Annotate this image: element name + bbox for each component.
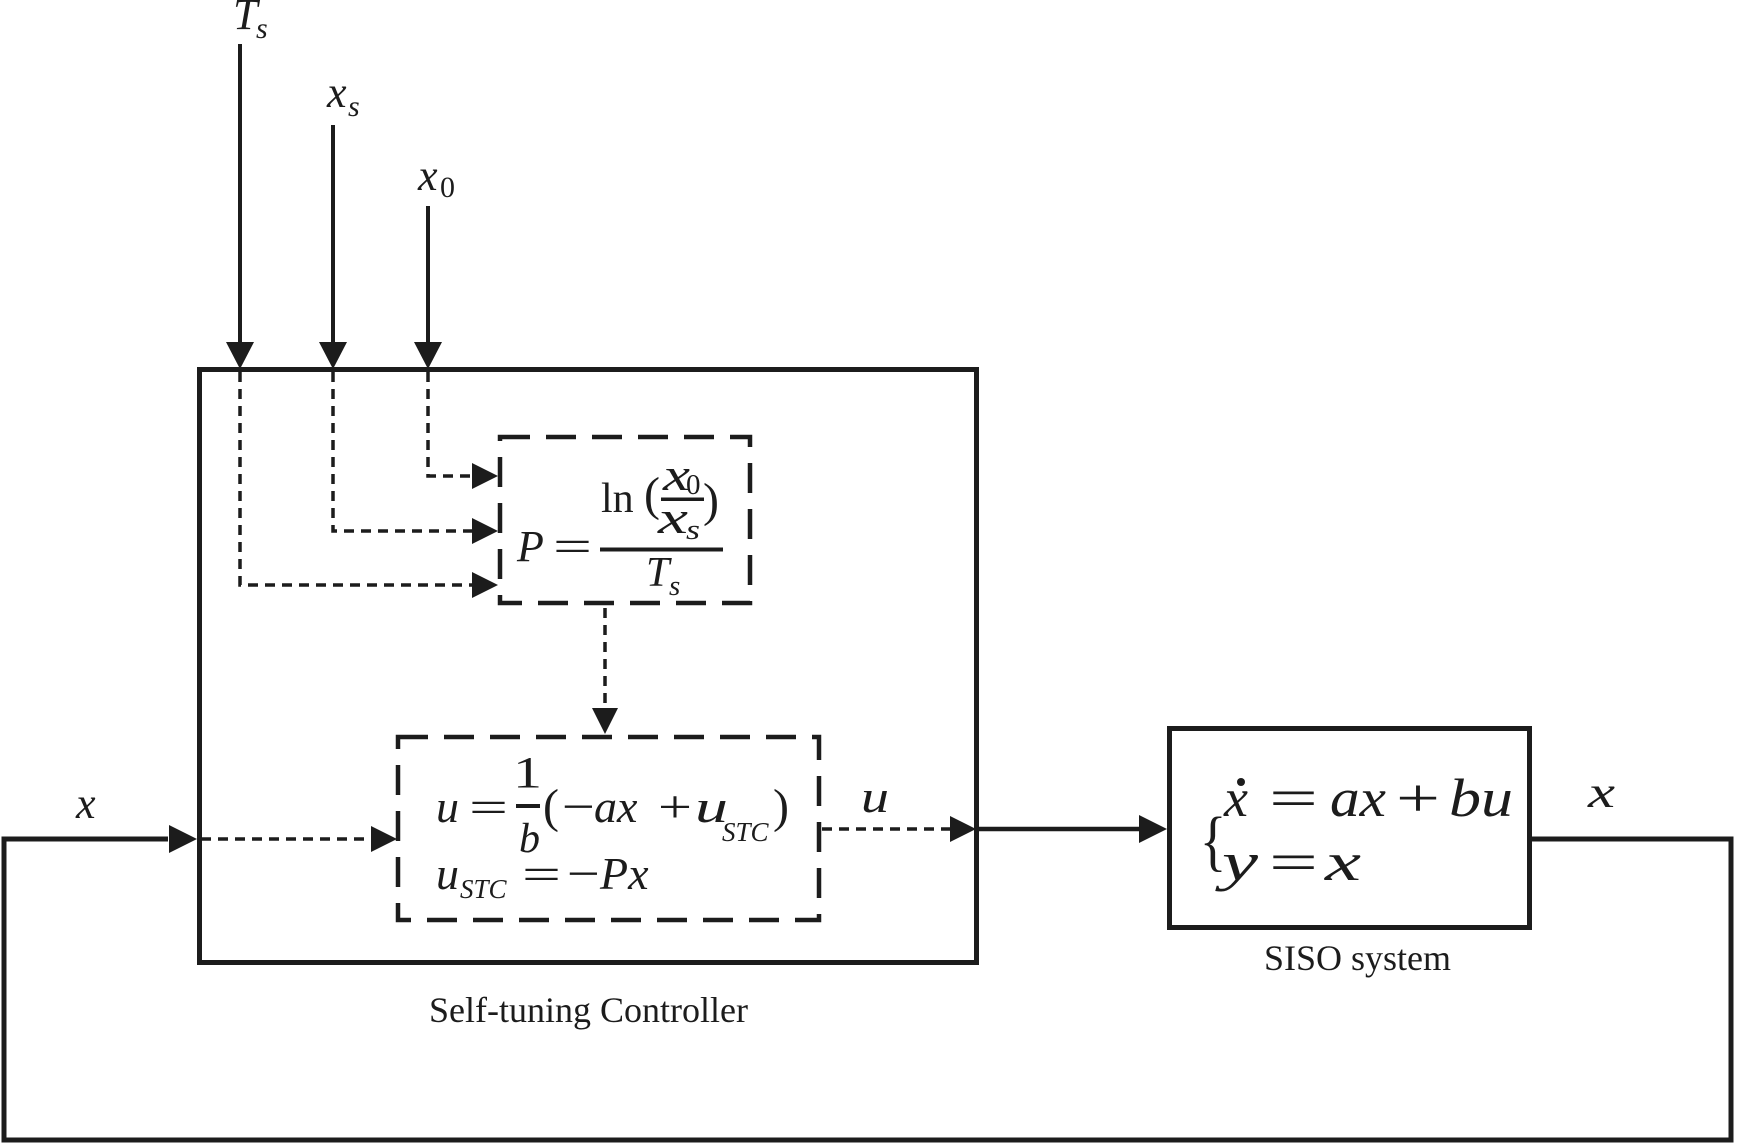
svg-text:u: u xyxy=(861,771,889,822)
svg-text:0: 0 xyxy=(686,469,701,501)
self-tuning controller box xyxy=(200,370,977,963)
input Ts arrowhead xyxy=(226,342,254,369)
input Ts wire xyxy=(238,44,242,344)
svg-text:=: = xyxy=(522,850,561,899)
svg-text:STC: STC xyxy=(722,817,770,847)
svg-text:=: = xyxy=(553,522,592,571)
dashed x0 connector to P box xyxy=(428,372,472,476)
SISO system box xyxy=(1170,729,1530,928)
input x0 arrowhead xyxy=(414,342,442,369)
svg-text:0: 0 xyxy=(440,171,455,204)
dashed x connector into u-law box xyxy=(201,837,371,841)
u law dashed box xyxy=(398,737,819,920)
x connector arrowhead xyxy=(371,826,397,852)
svg-text:x: x xyxy=(75,779,96,828)
svg-text:x: x xyxy=(1587,768,1616,817)
svg-text:+: + xyxy=(658,781,692,832)
svg-text:Px: Px xyxy=(599,848,649,899)
svg-text:ln: ln xyxy=(601,476,634,522)
svg-text:+: + xyxy=(1396,768,1440,828)
svg-text:x: x xyxy=(417,151,438,200)
svg-text:x: x xyxy=(1223,768,1248,828)
x0 connector arrowhead xyxy=(472,463,498,489)
main fraction bar xyxy=(600,548,723,552)
svg-text:ax: ax xyxy=(594,781,638,832)
inner fraction bar x0/xs xyxy=(661,498,704,502)
1/b fraction bar xyxy=(516,804,540,808)
svg-text:x: x xyxy=(657,492,689,543)
x input arrowhead xyxy=(169,825,197,853)
dashed Ts connector to P box xyxy=(240,372,472,585)
svg-text:−: − xyxy=(562,781,595,832)
u arrowhead into SISO xyxy=(1139,815,1167,843)
svg-text:y: y xyxy=(1214,832,1258,892)
svg-text:P: P xyxy=(516,522,544,571)
u wire to SISO xyxy=(979,827,1139,832)
P connector arrowhead xyxy=(592,708,618,734)
P calculator dashed box xyxy=(500,437,750,603)
svg-text:): ) xyxy=(773,780,789,833)
svg-text:SISO system: SISO system xyxy=(1264,938,1451,978)
svg-text:): ) xyxy=(703,474,719,527)
svg-text:s: s xyxy=(686,514,700,546)
svg-text:u: u xyxy=(436,781,459,832)
input x0 wire xyxy=(426,206,430,344)
svg-text:x: x xyxy=(326,68,347,117)
svg-text:1: 1 xyxy=(513,748,542,797)
svg-text:s: s xyxy=(669,570,680,602)
u connector arrowhead xyxy=(950,816,976,842)
dashed u connector out of u-law box xyxy=(822,827,950,831)
xs connector arrowhead xyxy=(472,518,498,544)
Ts connector arrowhead xyxy=(472,572,498,598)
dashed xs connector to P box xyxy=(333,372,472,531)
svg-text:Self-tuning Controller: Self-tuning Controller xyxy=(429,990,748,1030)
input xs wire xyxy=(331,125,335,344)
svg-text:=: = xyxy=(469,783,508,832)
svg-text:=: = xyxy=(1269,768,1318,828)
svg-text:x: x xyxy=(1323,832,1361,892)
svg-text:−: − xyxy=(567,848,600,899)
svg-text:=: = xyxy=(1269,832,1318,892)
svg-text:bu: bu xyxy=(1449,768,1513,828)
svg-text:u: u xyxy=(436,848,459,899)
svg-text:ax: ax xyxy=(1330,768,1386,828)
svg-text:s: s xyxy=(348,90,360,123)
svg-text:STC: STC xyxy=(460,874,508,904)
input xs arrowhead xyxy=(319,342,347,369)
svg-text:s: s xyxy=(256,12,268,45)
dashed P to u-law connector xyxy=(603,608,607,708)
svg-text:(: ( xyxy=(543,780,559,833)
feedback loop wire xyxy=(4,839,1731,1140)
